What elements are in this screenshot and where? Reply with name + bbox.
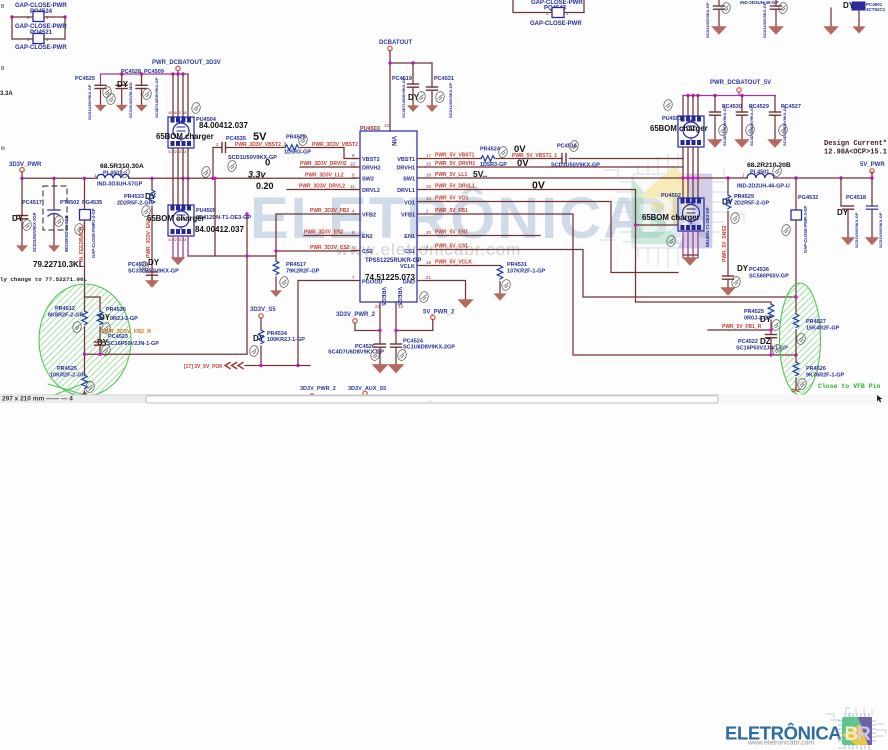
svg-text:VCLK: VCLK	[400, 264, 415, 270]
ground PR4531	[493, 293, 506, 300]
svg-text:3.3A: 3.3A	[0, 91, 13, 97]
svg-text:ly change to 77.52271.06L: ly change to 77.52271.06L	[0, 276, 87, 283]
wire FB2 net	[276, 214, 356, 251]
svg-text:Design Current*: Design Current*	[824, 140, 887, 148]
svg-text:SC16P50V2JN-1-GP: SC16P50V2JN-1-GP	[107, 341, 159, 347]
wire FB2 bus y355	[85, 214, 248, 354]
ground right edge cap	[865, 237, 879, 245]
svg-text:2: 2	[216, 142, 219, 147]
stamp PC4516	[569, 140, 579, 152]
wire VO1 net	[425, 202, 771, 305]
dashed change box	[43, 186, 67, 230]
junction dots 5V header	[686, 94, 689, 97]
capacitor PT4502 polarized	[48, 178, 79, 252]
stamp PR4534	[249, 345, 259, 357]
svg-text:6K8R2F-2-GP: 6K8R2F-2-GP	[48, 313, 83, 319]
top right capacitor column 1	[705, 0, 725, 38]
stamp PC4531	[435, 91, 445, 103]
arrows POK	[225, 363, 243, 369]
ground PC4531	[426, 105, 438, 112]
svg-text:PWR_5V_SNS2: PWR_5V_SNS2	[722, 225, 728, 262]
wire 3D3V_PWR_2 to cap	[355, 323, 380, 330]
stamp near PL4502	[120, 166, 130, 178]
resistor PR4533	[117, 178, 157, 280]
stamp PR4524	[498, 146, 508, 158]
svg-text:2: 2	[83, 222, 86, 227]
wire VFB1 net	[425, 214, 796, 355]
stamp PC4519	[416, 91, 426, 103]
junction dots FB2 bus	[83, 353, 86, 356]
svg-text:2: 2	[546, 11, 549, 16]
pin numbers right PU4503	[426, 153, 432, 280]
svg-text:VFB1: VFB1	[401, 213, 415, 219]
junction dot x247 y256	[245, 254, 248, 257]
svg-text:GAP-CLOSE-PWR: GAP-CLOSE-PWR	[530, 21, 582, 27]
svg-text:10: 10	[350, 162, 356, 167]
svg-text:PC4517: PC4517	[22, 200, 42, 206]
svg-text:19: 19	[426, 260, 432, 265]
stamp PR4527	[796, 333, 806, 345]
svg-text:DY: DY	[737, 264, 749, 273]
svg-text:...: ...	[428, 398, 432, 404]
svg-text:2D2R5F-2-GP: 2D2R5F-2-GP	[734, 201, 769, 207]
capacitor PC4524	[391, 339, 456, 366]
ground PC4509	[136, 105, 148, 112]
svg-text:PR4531: PR4531	[507, 262, 527, 268]
svg-text:16: 16	[426, 162, 432, 167]
stamp PC4523	[101, 344, 111, 356]
capacitor PC4517	[12, 178, 42, 252]
wire DRVL2 gate path	[215, 178, 356, 256]
stamp PC4520	[139, 261, 149, 273]
green highlight ellipse right	[780, 283, 821, 395]
ground PC4524	[388, 364, 405, 373]
svg-text:DRVH2: DRVH2	[362, 166, 381, 172]
svg-text:PC4536: PC4536	[749, 267, 769, 273]
capacitor PC4535 and VBST2 wire	[213, 136, 356, 178]
svg-text:IND-2D2UH-46-GP-U: IND-2D2UH-46-GP-U	[737, 184, 790, 190]
svg-text:SCD1U50V9KX-GP: SCD1U50V9KX-GP	[87, 84, 92, 120]
svg-text:1: 1	[742, 173, 745, 178]
svg-text:PU4501: PU4501	[662, 116, 682, 122]
resistor PR4528	[284, 135, 311, 156]
SECTION-LEFTRAIL	[0, 162, 356, 286]
svg-text:DY: DY	[117, 80, 129, 89]
svg-text:PWR_3D3V_EN2: PWR_3D3V_EN2	[146, 218, 152, 258]
svg-text:PWR_5V_VCLK: PWR_5V_VCLK	[435, 260, 472, 266]
ground top cap1	[711, 26, 727, 35]
svg-text:VIN: VIN	[390, 136, 396, 146]
stamp PC4530	[718, 124, 728, 136]
svg-text:84.00412.037: 84.00412.037	[199, 121, 248, 130]
stamp below IC	[419, 291, 429, 303]
gap-closer PQ4521	[15, 24, 67, 44]
stamp PT4502	[54, 215, 64, 227]
svg-text:0V: 0V	[517, 158, 529, 169]
stamp PR4526	[797, 378, 807, 390]
svg-text:PWR_5V_DRVH1: PWR_5V_DRVH1	[435, 161, 475, 167]
svg-text:21: 21	[426, 275, 432, 280]
junction dot CS1 sense	[794, 295, 797, 298]
resistor PR4524	[480, 147, 507, 169]
stamp PR4531	[501, 279, 511, 291]
ground PR4517	[270, 290, 282, 297]
SECTION-BOTTOMBAR	[0, 395, 888, 405]
gap-closer PG4532	[791, 178, 818, 297]
ground PC4526	[372, 364, 389, 373]
svg-text:IND-2D2UH-46-GP: IND-2D2UH-46-GP	[740, 0, 779, 5]
svg-text:PR4529: PR4529	[734, 194, 754, 200]
svg-text:68.2R210.20B: 68.2R210.20B	[747, 162, 791, 169]
svg-text:SCD1U50V9KX-GP: SCD1U50V9KX-GP	[762, 2, 767, 38]
stamp PR4535	[101, 322, 111, 334]
svg-text:SCD1U50V9KX-GP: SCD1U50V9KX-GP	[448, 82, 453, 118]
svg-text:5B18DN-T1-OE3-GP: 5B18DN-T1-OE3-GP	[705, 207, 710, 247]
svg-text:SC4D7U6D8V9KX-GP: SC4D7U6D8V9KX-GP	[722, 105, 727, 146]
resistor PR4527	[793, 297, 839, 355]
svg-text:12.98A<OCP>15.1: 12.98A<OCP>15.1	[824, 149, 887, 157]
svg-text:PWR_5V_LL1: PWR_5V_LL1	[435, 172, 467, 178]
ui white right area	[719, 395, 888, 405]
stamp above PU4504	[191, 102, 201, 114]
logo chip body	[842, 717, 872, 745]
junction dot DRVL2 rail	[213, 177, 216, 180]
pin stubs right PU4503	[417, 159, 425, 281]
svg-text:79K2R2F-GP: 79K2R2F-GP	[286, 269, 320, 275]
svg-text:PWR_3D3V_DRVH2: PWR_3D3V_DRVH2	[300, 161, 347, 167]
svg-text:PWR_5V_DRVL1: PWR_5V_DRVL1	[435, 184, 475, 190]
svg-text:PR4527: PR4527	[806, 319, 826, 325]
wire FB1_R stub	[708, 329, 771, 331]
svg-text:B: B	[1, 4, 5, 10]
junction dot FB2/CS2	[274, 249, 277, 252]
capacitor PC4509	[136, 69, 164, 118]
svg-text:PWR_3D3V_FB2: PWR_3D3V_FB2	[310, 208, 349, 214]
svg-text:PWR_3D3V_LL2: PWR_3D3V_LL2	[305, 173, 344, 179]
svg-text:14: 14	[426, 196, 432, 201]
svg-text:65BOM charger: 65BOM charger	[642, 213, 700, 222]
pin stubs left PU4503	[352, 159, 360, 281]
top right component PC4501	[852, 2, 886, 27]
wire PGOOD net	[298, 281, 352, 366]
ground PC4527	[767, 139, 783, 148]
svg-text:0: 0	[265, 158, 270, 169]
gap-closer PQ4524	[15, 3, 67, 22]
capacitor PC4522	[736, 335, 788, 356]
ground PU4505	[173, 257, 183, 259]
capacitor PC4526	[328, 344, 386, 365]
svg-text:R: R	[857, 724, 871, 745]
watermark chip logo	[600, 154, 746, 268]
pin numbers left PU4503	[350, 153, 356, 280]
stamp PR4528	[298, 134, 308, 146]
svg-text:3.3v: 3.3v	[248, 170, 267, 180]
component PG4535	[80, 178, 103, 286]
wire PQ4543 row	[513, 0, 584, 13]
svg-text:9K76R2F-1-GP: 9K76R2F-1-GP	[806, 373, 845, 379]
junction dots battery rail	[120, 72, 123, 75]
svg-text:PWR_3D3V_EN2: PWR_3D3V_EN2	[304, 230, 344, 236]
wire DRVH1 net	[425, 166, 683, 168]
ground PC4525	[95, 105, 107, 112]
svg-text:SC4D7U6D8V9KX-GP: SC4D7U6D8V9KX-GP	[401, 77, 406, 118]
svg-text:0V: 0V	[532, 180, 545, 192]
svg-text:137KR2F-1-GP: 137KR2F-1-GP	[507, 269, 546, 275]
cursor arrow	[877, 395, 882, 403]
svg-text:PWR_DCBATOUT_5V: PWR_DCBATOUT_5V	[710, 80, 771, 86]
svg-text:SW1: SW1	[403, 177, 415, 183]
svg-text:3CT52C1: 3CT52C1	[866, 7, 886, 12]
ground PU4502	[683, 254, 698, 256]
resistor PR4531	[497, 262, 545, 294]
ground top cap2	[768, 26, 784, 35]
svg-text:VO1: VO1	[404, 201, 415, 207]
ground PC4519	[407, 105, 419, 112]
svg-text:DRVL1: DRVL1	[397, 188, 415, 194]
stamp PC4535	[227, 160, 237, 172]
svg-text:11: 11	[350, 184, 355, 189]
svg-text:PWR_5V_VBST1: PWR_5V_VBST1	[435, 153, 475, 159]
ground top col4	[852, 26, 865, 33]
stamp below PU4502	[666, 235, 676, 247]
stamp PC4517	[22, 219, 32, 231]
junction dots on 3.3V rail	[20, 177, 23, 180]
top right capacitor column 2	[762, 0, 782, 38]
svg-text:18: 18	[426, 173, 432, 178]
inductor PL4502	[94, 163, 144, 188]
stamp PG4532	[781, 224, 791, 236]
WATERMARK-LAYER	[250, 154, 746, 268]
resistor PR4526	[792, 355, 845, 392]
ground PC4518	[841, 237, 855, 245]
capacitor PC4530	[710, 96, 742, 147]
svg-text:VFB2: VFB2	[362, 213, 376, 219]
junction dots PQ row1	[10, 15, 13, 18]
svg-text:23: 23	[375, 304, 381, 309]
svg-text:EN1: EN1	[404, 234, 415, 240]
wire CS1 net	[425, 250, 796, 298]
wire charger drive to PR4517 y256	[188, 255, 276, 257]
svg-text:3D3V_S5: 3D3V_S5	[250, 307, 276, 313]
svg-text:84.00412.037: 84.00412.037	[195, 225, 244, 234]
stamp left of PU4501	[663, 99, 673, 111]
wire 5V battery header	[683, 92, 775, 95]
svg-text:PC4528: PC4528	[121, 69, 141, 75]
stamp cap1	[721, 2, 731, 14]
ui bar	[0, 395, 888, 405]
wire DRVH2	[300, 166, 356, 168]
svg-text:PR4525: PR4525	[57, 366, 77, 372]
svg-text:7: 7	[352, 275, 355, 280]
capacitor right edge	[867, 178, 884, 248]
svg-text:79.22710.3KL: 79.22710.3KL	[33, 260, 84, 269]
stamp PC4526	[370, 349, 380, 361]
transistor block PU4501	[662, 116, 704, 147]
wire SW1 rail	[425, 177, 747, 179]
resistor PR4517	[273, 251, 319, 291]
resistor PR4529	[722, 178, 769, 276]
svg-text:15: 15	[426, 184, 432, 189]
resistor PR4525	[50, 366, 88, 396]
stamp cap2	[778, 2, 788, 14]
svg-text:SCD1U50V9KX-GP: SCD1U50V9KX-GP	[705, 2, 710, 38]
SECTION-MAINIC	[274, 40, 796, 398]
svg-text:20: 20	[426, 230, 432, 235]
svg-text:PWR_5V_FB1_R: PWR_5V_FB1_R	[722, 324, 762, 330]
svg-text:PC4509: PC4509	[144, 69, 164, 75]
svg-text:PC4525: PC4525	[75, 76, 95, 82]
stamp PL4501	[772, 165, 782, 177]
junction dot DCBATOUT	[388, 61, 391, 64]
resistor PR4535	[97, 307, 138, 341]
svg-text:45 46 47 48: 45 46 47 48	[168, 111, 187, 115]
wire FET bundle mid	[173, 148, 188, 205]
green highlight ellipse left	[39, 284, 131, 396]
svg-text:SC310U6DVM-8DG: SC310U6DVM-8DG	[128, 82, 133, 118]
inductor PL4501	[737, 162, 791, 190]
wire EN2 net	[304, 235, 356, 237]
svg-text:IN_FEEDBACK: IN_FEEDBACK	[79, 226, 85, 262]
svg-text:SC4D7U6D8V9KX-GP: SC4D7U6D8V9KX-GP	[782, 105, 787, 146]
stamp PC4536	[731, 276, 741, 288]
junction dots on 5V rail and bundle crossings	[681, 176, 684, 179]
stamp PG4535	[74, 223, 84, 235]
stamp right of bundle	[201, 166, 211, 178]
wire PQ4524 row	[12, 16, 65, 18]
svg-text:3D3V_AUX_S5: 3D3V_AUX_S5	[348, 386, 386, 392]
junction dot DRVL1 gate	[634, 223, 637, 226]
svg-text:5V..: 5V..	[473, 169, 487, 179]
wire GND pin21	[425, 281, 466, 301]
stamp PR4529	[730, 212, 740, 224]
wire PQ4521 row	[12, 38, 65, 40]
svg-text:100KR2J-1-GP: 100KR2J-1-GP	[267, 337, 305, 343]
svg-text:GAP-CLOSE-PWR-3-GP: GAP-CLOSE-PWR-3-GP	[803, 206, 808, 253]
svg-text:PT4502: PT4502	[60, 200, 79, 206]
svg-text:PWR_DCBATOUT_3D3V: PWR_DCBATOUT_3D3V	[152, 60, 221, 66]
svg-text:3D3V_PWR_2: 3D3V_PWR_2	[336, 312, 376, 318]
wire right FET bundle bottom	[683, 231, 698, 258]
svg-text:VBST2: VBST2	[362, 157, 380, 163]
wire POK	[245, 365, 310, 367]
svg-text:1: 1	[566, 11, 569, 16]
gap-closer PQ4543 top middle	[530, 0, 583, 27]
svg-text:17: 17	[426, 153, 432, 158]
SECTION-LEFTELLIPSE	[39, 212, 320, 399]
ground PC4529	[734, 139, 750, 148]
wire DCBATOUT to VIN	[390, 51, 432, 131]
svg-text:DCBATOUT: DCBATOUT	[379, 40, 412, 46]
svg-text:DRVL2: DRVL2	[362, 188, 380, 194]
svg-text:3D3V_PWR: 3D3V_PWR	[9, 162, 42, 168]
svg-text:PWR_3D3V_DRVL2: PWR_3D3V_DRVL2	[299, 184, 345, 190]
svg-text:10KR2F-2-GP: 10KR2F-2-GP	[50, 373, 85, 379]
wire VCLK net	[425, 265, 500, 267]
svg-text:41 42 43 44: 41 42 43 44	[168, 150, 187, 154]
svg-text:SC4D7U6D8V9KX-GP: SC4D7U6D8V9KX-GP	[749, 105, 754, 146]
svg-text:SCD1U50V9KX-GP: SCD1U50V9KX-GP	[878, 212, 883, 248]
svg-text:5V: 5V	[253, 131, 267, 143]
stray green strokes bottom left	[44, 381, 98, 399]
svg-text:VREG5: VREG5	[380, 287, 386, 306]
wire DRVL1 net	[425, 190, 678, 303]
svg-text:74.51225.073: 74.51225.073	[365, 273, 416, 282]
svg-text:SC4D7U6D8V9KX-GP: SC4D7U6D8V9KX-GP	[154, 77, 159, 118]
wire VBST1 net	[425, 158, 683, 160]
svg-text:B: B	[1, 66, 5, 72]
transistor block PU4505	[168, 205, 251, 236]
ground PT4502	[48, 245, 60, 252]
ground PC4517	[16, 245, 28, 252]
capacitor PC4529	[737, 96, 769, 147]
svg-text:PWR_5V_FB1: PWR_5V_FB1	[435, 208, 468, 214]
capacitor PC4520	[128, 258, 179, 281]
svg-text:297 x 210 mm —— — 4: 297 x 210 mm —— — 4	[2, 396, 73, 403]
svg-text:CS2: CS2	[362, 249, 373, 255]
svg-text:PWR_5V_VO1: PWR_5V_VO1	[435, 196, 469, 202]
svg-text:SC1U6D8V9KX-2GP: SC1U6D8V9KX-2GP	[403, 345, 455, 351]
stamp PC4522	[772, 344, 782, 356]
wire right FET bundle top	[683, 96, 698, 117]
svg-text:DY: DY	[148, 258, 160, 267]
svg-text:PC4523: PC4523	[108, 334, 128, 340]
svg-text:65BOM charger: 65BOM charger	[650, 124, 708, 133]
wire VREG pins down	[380, 302, 396, 344]
capacitor PC4531	[427, 63, 454, 118]
svg-text:15K4R2F-GP: 15K4R2F-GP	[806, 326, 840, 332]
svg-text:41 42 43 44: 41 42 43 44	[168, 238, 187, 242]
svg-text:5V_PWR_2: 5V_PWR_2	[423, 310, 455, 316]
svg-text:PC4531: PC4531	[434, 76, 454, 82]
stamp PR4517	[279, 276, 289, 288]
wire verticals PQ group	[12, 17, 65, 39]
svg-text:DRVH1: DRVH1	[396, 166, 415, 172]
wire battery rail purple	[101, 71, 189, 85]
svg-text:TPS51225RUKR-GP: TPS51225RUKR-GP	[365, 258, 421, 264]
SECTION-RIGHT	[642, 0, 887, 395]
SECTION-TOPLEFT	[0, 0, 584, 152]
ground PC4530	[707, 139, 723, 148]
svg-text:VREG5: VREG5	[396, 287, 402, 306]
wire 5V output rail	[774, 172, 872, 178]
resistor PR4525	[744, 304, 774, 334]
svg-text:PWR_3D3V_CS2: PWR_3D3V_CS2	[310, 245, 350, 251]
svg-text:PWR_5V_EN1: PWR_5V_EN1	[435, 230, 468, 236]
transistor block PU4502	[661, 193, 710, 247]
stamp PR4533	[141, 205, 151, 217]
svg-text:PR4524: PR4524	[480, 147, 501, 153]
svg-text:SC4D7U6D8V9KX-GP: SC4D7U6D8V9KX-GP	[328, 350, 384, 356]
svg-text:PR4512: PR4512	[55, 306, 75, 312]
svg-text:PG4532: PG4532	[798, 195, 818, 201]
junction dot FB1_R	[769, 328, 772, 331]
svg-text:65BOM charger: 65BOM charger	[156, 132, 214, 141]
svg-text:SCD1U50V9KX-3GP: SCD1U50V9KX-3GP	[32, 212, 37, 252]
ground PU4503	[457, 299, 473, 308]
svg-text:SW2: SW2	[362, 177, 374, 183]
capacitor PC4516	[551, 144, 600, 169]
junction dot FB divider	[794, 353, 797, 356]
svg-text:3D3V_PWR_2: 3D3V_PWR_2	[300, 386, 336, 392]
capacitor PC4519	[392, 63, 420, 118]
capacitor PC4518	[837, 178, 866, 248]
svg-text:0.20: 0.20	[256, 181, 274, 191]
capacitor PC4525	[75, 76, 106, 120]
SECTION-CHARGERLEFT	[75, 60, 358, 288]
stamp PC4529	[745, 124, 755, 136]
top right inductor fragment	[740, 0, 855, 27]
capacitor PC4536	[723, 264, 790, 288]
